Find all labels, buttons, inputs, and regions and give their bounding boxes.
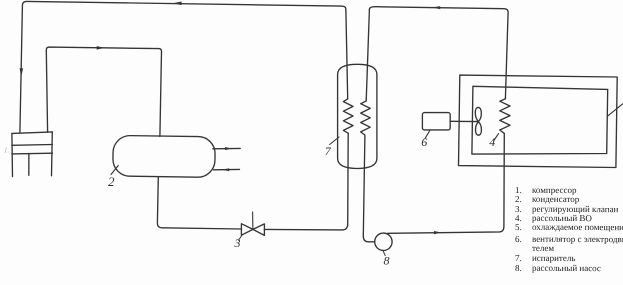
- arrow on brine top line pointing left: [432, 6, 440, 9]
- wire: condenser outlet down to valve line: [157, 177, 241, 229]
- fan motor 6: box: [422, 113, 450, 130]
- wire: suction line (evaporator top to compressor, with both corners): [20, 1, 346, 132]
- brine pump 8: inlet curve: [363, 236, 374, 242]
- wire: valve to evaporator riser: [264, 133, 348, 230]
- arrow on pump outlet pointing right: [434, 231, 442, 234]
- valve stem: [252, 212, 254, 230]
- regulating valve 3: bowtie: [241, 224, 253, 236]
- arrow on top suction line pointing left: [173, 2, 182, 6]
- cooled room 5: outer wall: [459, 75, 618, 167]
- brine pump 8: circle: [375, 233, 392, 250]
- arrow on discharge horizontal pointing right: [97, 46, 105, 50]
- fan blades (two petals): [475, 107, 481, 121]
- svg-text:3: 3: [234, 236, 241, 250]
- brine cooler coil 4 in room: zigzag: [500, 99, 510, 134]
- svg-text:1.: 1.: [4, 147, 10, 155]
- evaporator 7: vertical shell: [338, 64, 377, 168]
- leader for label 5 (to right edge): [608, 104, 623, 117]
- wire: compressor discharge up: [46, 47, 161, 136]
- refrigerant coil (left) in evaporator: zigzag: [343, 11, 353, 133]
- leader for label 2: [111, 166, 118, 175]
- cooled room 5: inner wall: [472, 86, 608, 154]
- leader for label 3: [239, 236, 242, 241]
- leader for label 8: [383, 250, 385, 255]
- svg-text:6: 6: [421, 135, 427, 149]
- brine coil (right) in evaporator: zigzag: [361, 9, 371, 236]
- compressor 1: body outline strokes: [12, 132, 52, 134]
- leader for label 7: [330, 137, 339, 145]
- cooling water inlet line with left arrow: [213, 168, 239, 170]
- svg-text:8: 8: [384, 254, 390, 268]
- condenser 2: horizontal tank: [113, 135, 216, 177]
- svg-text:7: 7: [325, 144, 332, 158]
- wire: pump outlet to room coil: [388, 133, 505, 233]
- leader for label 6: [425, 131, 430, 139]
- arrow on left vertical pointing down: [20, 68, 24, 77]
- svg-text:2: 2: [108, 174, 115, 189]
- cooling water outlet line with right arrow: [213, 147, 240, 149]
- wire: brine top line (room to evaporator): [369, 7, 508, 99]
- legend: [515, 186, 522, 195]
- fan shaft: [450, 120, 477, 122]
- svg-text:4: 4: [489, 135, 495, 149]
- leader for label 4: [494, 134, 499, 141]
